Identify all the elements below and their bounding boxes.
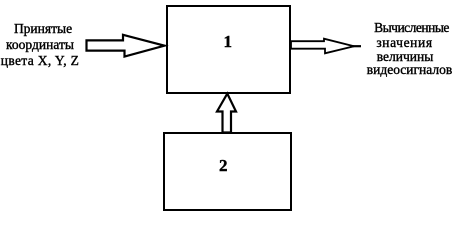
block 2: [163, 132, 291, 210]
label 1: [223, 35, 232, 48]
up block arrow from block 2 to block 1: [217, 94, 236, 133]
input text line 2: [6, 38, 74, 51]
output text line 3: [377, 50, 434, 63]
input text line 1: [14, 22, 72, 35]
output arrow tip stub: [352, 45, 361, 47]
label 2: [219, 159, 228, 172]
output text line 2: [376, 36, 432, 49]
input text line 3: [1, 54, 80, 67]
input block arrow: [87, 35, 165, 57]
output text line 4: [367, 63, 453, 76]
output block arrow: [291, 39, 354, 54]
output text line 1: [374, 21, 449, 34]
block 1: [166, 5, 291, 93]
